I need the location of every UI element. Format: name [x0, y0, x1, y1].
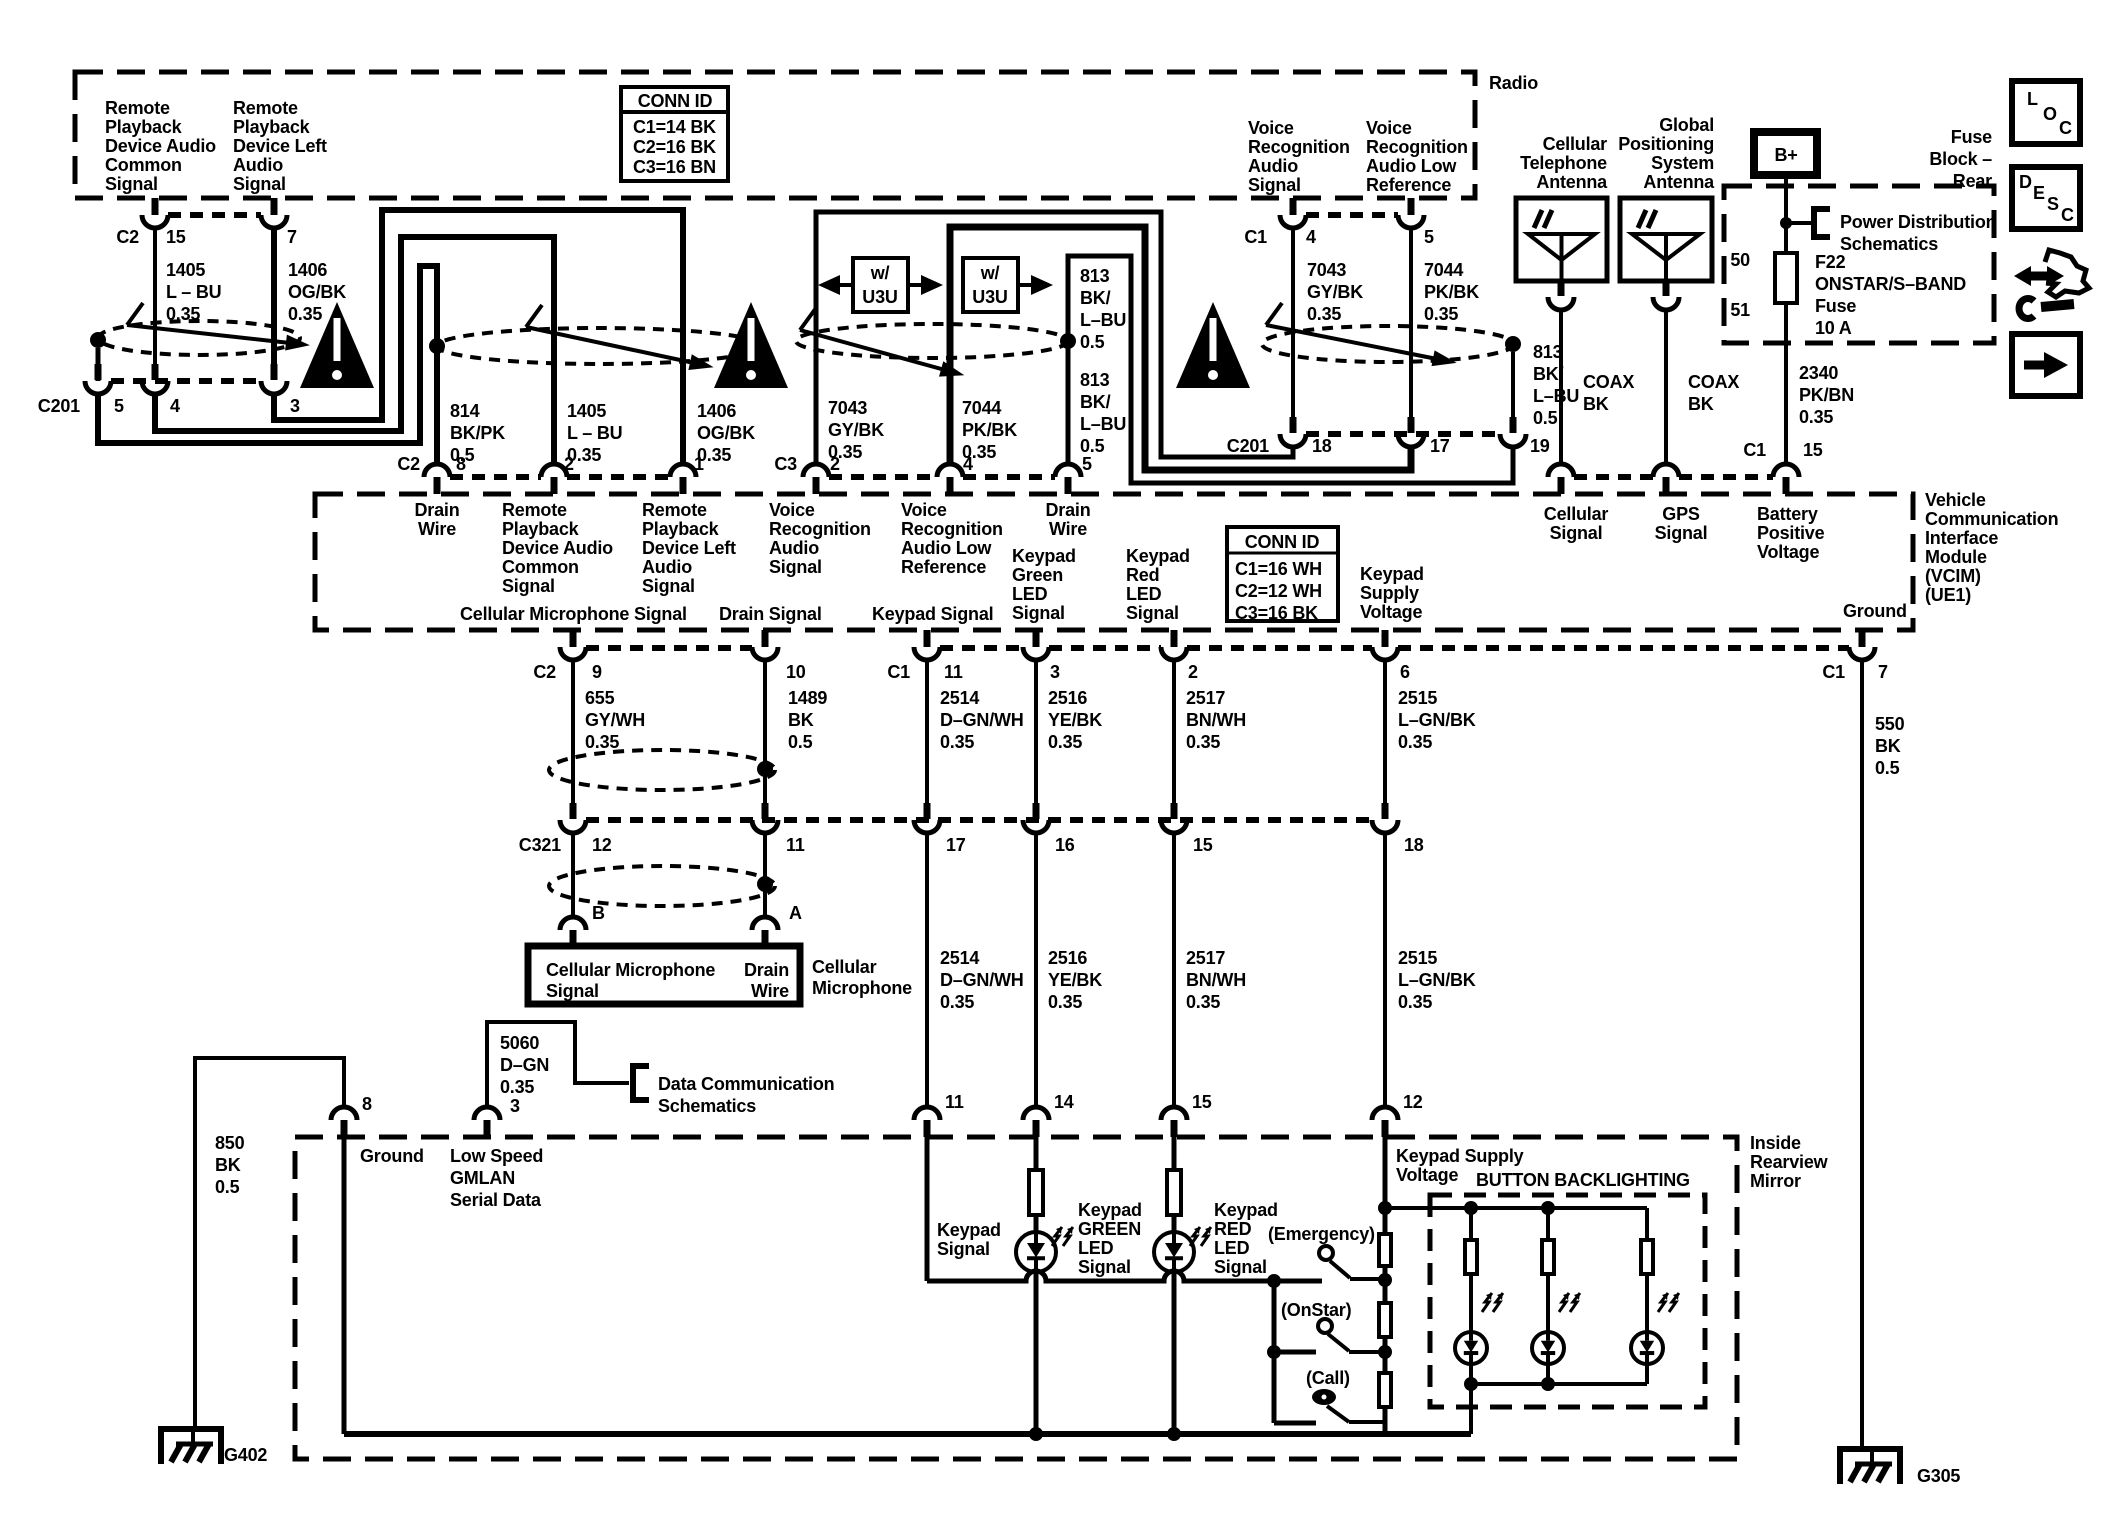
mirror pin 11: [914, 1107, 940, 1120]
svg-text:813: 813: [1080, 370, 1110, 390]
svg-text:Device Audio: Device Audio: [502, 538, 613, 558]
svg-text:7: 7: [287, 227, 297, 247]
svg-text:OG/BK: OG/BK: [288, 282, 346, 302]
radio pin 5: [1408, 198, 1415, 215]
wire 655 GY/WH: [571, 660, 575, 803]
GPS antenna inline connector: [1663, 282, 1670, 296]
svg-text:Drain Signal: Drain Signal: [719, 604, 822, 624]
svg-text:Global: Global: [1659, 115, 1714, 135]
shield arrow B: [526, 327, 694, 363]
svg-text:LED: LED: [1126, 584, 1162, 604]
svg-text:11: 11: [944, 662, 963, 682]
LOC legend box: [2012, 81, 2080, 144]
wire 7044 PK/BK (radio 5 to C201 17): [1409, 228, 1413, 417]
svg-text:7: 7: [1878, 662, 1888, 682]
svg-text:G305: G305: [1917, 1466, 1960, 1486]
svg-text:17: 17: [946, 835, 966, 855]
svg-text:S: S: [2047, 194, 2059, 214]
svg-text:C: C: [2061, 205, 2074, 225]
svg-text:Keypad: Keypad: [1214, 1200, 1278, 1220]
svg-text:Audio: Audio: [642, 557, 692, 577]
svg-text:Rear: Rear: [1953, 171, 1992, 191]
svg-text:Remote: Remote: [642, 500, 707, 520]
svg-text:C2: C2: [116, 227, 139, 247]
svg-text:D–GN/WH: D–GN/WH: [940, 710, 1024, 730]
svg-text:Remote: Remote: [502, 500, 567, 520]
C201 row2 dashed body: [1306, 431, 1500, 437]
radio connector C2 dashed body: [168, 212, 261, 218]
svg-text:Antenna: Antenna: [1536, 172, 1608, 192]
svg-text:Supply: Supply: [1360, 583, 1419, 603]
svg-text:F22: F22: [1815, 252, 1846, 272]
svg-text:Device Audio: Device Audio: [105, 136, 216, 156]
svg-text:9: 9: [592, 662, 602, 682]
svg-text:15: 15: [1193, 835, 1213, 855]
shield arrow C: [800, 330, 945, 370]
svg-text:w/: w/: [980, 263, 1000, 283]
svg-text:C1=16 WH: C1=16 WH: [1235, 559, 1322, 579]
svg-text:Signal: Signal: [1126, 603, 1179, 623]
C201 pin 5: [95, 364, 102, 380]
wire 655 lower: [571, 833, 575, 919]
svg-text:Recognition: Recognition: [901, 519, 1003, 539]
VCIM pin C1-15 battery: [1773, 464, 1799, 477]
C321 pin 16: [1033, 803, 1040, 819]
svg-text:Signal: Signal: [642, 576, 695, 596]
svg-text:0.5: 0.5: [1080, 436, 1105, 456]
svg-text:BUTTON BACKLIGHTING: BUTTON BACKLIGHTING: [1476, 1170, 1690, 1190]
cellular microphone box: [528, 946, 800, 1004]
svg-text:D–GN/WH: D–GN/WH: [940, 970, 1024, 990]
svg-text:Antenna: Antenna: [1643, 172, 1715, 192]
svg-text:15: 15: [1803, 440, 1823, 460]
twisted pair ellipse (lower): [549, 866, 775, 906]
svg-text:L: L: [2027, 89, 2038, 109]
svg-text:C2=12 WH: C2=12 WH: [1235, 581, 1322, 601]
svg-text:Signal: Signal: [1078, 1257, 1131, 1277]
svg-text:0.35: 0.35: [500, 1077, 534, 1097]
resistor divider 3: [1379, 1373, 1391, 1407]
svg-text:15: 15: [166, 227, 186, 247]
svg-text:GPS: GPS: [1662, 504, 1700, 524]
svg-text:2515: 2515: [1398, 688, 1437, 708]
svg-text:Signal: Signal: [769, 557, 822, 577]
wire 2340 PK/BN: [1784, 303, 1788, 464]
wire 813 upper segment (dot to C201 19): [1511, 352, 1515, 417]
svg-text:0.35: 0.35: [1186, 732, 1220, 752]
svg-text:0.5: 0.5: [215, 1177, 240, 1197]
svg-text:5: 5: [1424, 227, 1434, 247]
svg-text:E: E: [2033, 183, 2045, 203]
svg-text:GY/BK: GY/BK: [1307, 282, 1363, 302]
svg-text:15: 15: [1192, 1092, 1212, 1112]
svg-text:2517: 2517: [1186, 948, 1225, 968]
svg-text:C3: C3: [774, 454, 797, 474]
svg-text:4: 4: [1306, 227, 1316, 247]
svg-text:Data Communication: Data Communication: [658, 1074, 834, 1094]
radio pin C2-15: [152, 198, 159, 215]
radio pin C1-4: [1290, 198, 1297, 215]
svg-text:Recognition: Recognition: [1248, 137, 1350, 157]
VCIM pin C2-9: [570, 630, 577, 647]
svg-text:10 A: 10 A: [1815, 318, 1852, 338]
svg-text:Wire: Wire: [418, 519, 456, 539]
svg-text:1406: 1406: [697, 401, 736, 421]
svg-text:12: 12: [1403, 1092, 1423, 1112]
VCIM bottom C2 dashed body: [586, 645, 752, 651]
VCIM pin C1 gps: [1653, 464, 1679, 477]
svg-text:Signal: Signal: [937, 1239, 990, 1259]
svg-text:Recognition: Recognition: [769, 519, 871, 539]
svg-text:GY/BK: GY/BK: [828, 420, 884, 440]
svg-text:Drain: Drain: [744, 960, 789, 980]
svg-text:Green: Green: [1012, 565, 1063, 585]
C321 pin 18: [1382, 803, 1389, 819]
svg-text:COAX: COAX: [1583, 372, 1634, 392]
svg-text:Common: Common: [502, 557, 579, 577]
svg-text:1406: 1406: [288, 260, 327, 280]
svg-text:1405: 1405: [567, 401, 606, 421]
svg-text:Device Left: Device Left: [233, 136, 327, 156]
wire 7044 route (VCIM C3-4 to C201 17): [950, 227, 1411, 470]
svg-text:PK/BK: PK/BK: [962, 420, 1017, 440]
svg-text:C201: C201: [38, 396, 80, 416]
svg-text:0.35: 0.35: [1048, 732, 1082, 752]
svg-text:Telephone: Telephone: [1520, 153, 1607, 173]
svg-text:4: 4: [170, 396, 180, 416]
C321 dashed body: [586, 817, 1372, 823]
svg-text:Signal: Signal: [105, 174, 158, 194]
svg-text:18: 18: [1312, 436, 1332, 456]
svg-text:Reference: Reference: [1366, 175, 1451, 195]
svg-text:L–GN/BK: L–GN/BK: [1398, 970, 1476, 990]
svg-text:2516: 2516: [1048, 948, 1087, 968]
svg-text:BK: BK: [1583, 394, 1609, 414]
svg-text:Red: Red: [1126, 565, 1159, 585]
svg-text:2516: 2516: [1048, 688, 1087, 708]
mirror pin 8 (ground): [331, 1107, 357, 1120]
shield ellipse D: [1262, 326, 1514, 362]
svg-text:w/: w/: [870, 263, 890, 283]
VCIM pin C2-8: [424, 464, 450, 477]
svg-text:Rearview: Rearview: [1750, 1152, 1829, 1172]
svg-text:B: B: [592, 903, 605, 923]
svg-text:L–BU: L–BU: [1533, 386, 1579, 406]
svg-text:L–BU: L–BU: [1080, 414, 1126, 434]
svg-text:ONSTAR/S–BAND: ONSTAR/S–BAND: [1815, 274, 1966, 294]
svg-text:Voice: Voice: [1366, 118, 1412, 138]
resistor divider 1: [1379, 1234, 1391, 1266]
svg-text:LED: LED: [1078, 1238, 1114, 1258]
switch branch vertical: [1272, 1281, 1277, 1423]
svg-text:6: 6: [1400, 662, 1410, 682]
wire 7043 route (VCIM C3-2 to C201 18): [816, 212, 1293, 464]
VCIM pin C1-3: [1033, 630, 1040, 647]
svg-text:C: C: [2059, 118, 2072, 138]
svg-text:G402: G402: [224, 1445, 267, 1465]
wire 2515 L-GN/BK: [1383, 660, 1387, 803]
svg-text:850: 850: [215, 1133, 245, 1153]
wire 7043 GY/BK (radio C1-4 to C201 18): [1291, 228, 1295, 417]
DESC legend box: [2012, 167, 2080, 229]
Fuse Block - Rear box: [1724, 186, 1994, 343]
C321 pin 15: [1171, 803, 1178, 819]
wire B+ to fuse: [1784, 175, 1788, 253]
wire 1406 route (C201 3 to VCIM C2-1): [274, 210, 683, 464]
svg-text:Power Distribution: Power Distribution: [1840, 212, 1996, 232]
svg-text:C1: C1: [1244, 227, 1267, 247]
svg-text:GMLAN: GMLAN: [450, 1168, 515, 1188]
svg-text:4: 4: [963, 454, 973, 474]
C321 pin 11: [762, 803, 769, 819]
svg-text:Device Left: Device Left: [642, 538, 736, 558]
svg-text:Mirror: Mirror: [1750, 1171, 1801, 1191]
C201 pin 4: [152, 364, 159, 380]
svg-text:0.35: 0.35: [1424, 304, 1458, 324]
C321 pin 12: [570, 803, 577, 819]
wire 813 drain route (VCIM C3-5 to C201 19): [1068, 256, 1513, 483]
wire 814 BK/PK drain route (C201 5 to VCIM C2-8): [96, 348, 101, 381]
power distribution off-page tap: [1786, 221, 1812, 225]
svg-text:BK: BK: [215, 1155, 241, 1175]
svg-text:C2=16 BK: C2=16 BK: [633, 137, 716, 157]
svg-text:Module: Module: [1925, 547, 1987, 567]
svg-text:Audio: Audio: [769, 538, 819, 558]
svg-text:C201: C201: [1227, 436, 1269, 456]
VCIM pin C3-5: [1055, 464, 1081, 477]
VCIM C2 top dashed body: [450, 474, 541, 480]
ground G305: [1840, 1449, 1900, 1484]
svg-text:PK/BN: PK/BN: [1799, 385, 1854, 405]
C321 pin 17: [924, 803, 931, 819]
svg-text:0.35: 0.35: [1398, 992, 1432, 1012]
svg-text:C3=16 BN: C3=16 BN: [633, 157, 716, 177]
junction dot on 814: [429, 338, 445, 354]
keypad red LED branch: [1172, 1137, 1177, 1170]
svg-text:B+: B+: [1774, 145, 1797, 165]
shield ellipse C: [796, 324, 1068, 358]
VCIM pin C1-11: [924, 630, 931, 647]
warning triangle 1: [300, 302, 374, 388]
svg-text:Positive: Positive: [1757, 523, 1825, 543]
svg-text:Keypad: Keypad: [1012, 546, 1076, 566]
svg-text:0.35: 0.35: [1186, 992, 1220, 1012]
svg-text:5060: 5060: [500, 1033, 539, 1053]
backlighting feed: [1378, 1201, 1392, 1215]
svg-text:1489: 1489: [788, 688, 827, 708]
svg-text:Remote: Remote: [233, 98, 298, 118]
svg-text:Serial Data: Serial Data: [450, 1190, 542, 1210]
swap/wrench icon: [2026, 272, 2052, 281]
svg-text:A: A: [789, 903, 802, 923]
BUTTON BACKLIGHTING box: [1430, 1195, 1705, 1407]
svg-text:3: 3: [1050, 662, 1060, 682]
svg-text:PK/BK: PK/BK: [1424, 282, 1479, 302]
svg-text:GY/WH: GY/WH: [585, 710, 645, 730]
svg-text:Ground: Ground: [1843, 601, 1907, 621]
svg-text:Positioning: Positioning: [1618, 134, 1714, 154]
svg-text:12: 12: [592, 835, 612, 855]
svg-text:5: 5: [1082, 454, 1092, 474]
VCIM pin C3-2: [803, 464, 829, 477]
VCIM bottom C1 dashed body: [940, 645, 1023, 651]
svg-text:Schematics: Schematics: [1840, 234, 1938, 254]
svg-text:17: 17: [1430, 436, 1450, 456]
mirror pin 3 (GMLAN): [474, 1107, 500, 1120]
ground G402: [161, 1429, 221, 1464]
svg-text:Signal: Signal: [546, 981, 599, 1001]
wire 5060 D-GN (GMLAN): [487, 1022, 629, 1108]
CONN ID table (radio): [621, 87, 728, 181]
svg-text:Fuse: Fuse: [1951, 127, 1992, 147]
svg-text:2514: 2514: [940, 948, 979, 968]
svg-text:D–GN: D–GN: [500, 1055, 549, 1075]
svg-text:OG/BK: OG/BK: [697, 423, 755, 443]
wire 550 BK (VCIM ground to G305): [1860, 660, 1864, 1449]
svg-text:Voltage: Voltage: [1396, 1165, 1458, 1185]
svg-text:Audio: Audio: [233, 155, 283, 175]
svg-text:813: 813: [1080, 266, 1110, 286]
svg-text:11: 11: [945, 1092, 964, 1112]
svg-text:1405: 1405: [166, 260, 205, 280]
forward arrow legend box: [2012, 334, 2080, 396]
svg-text:COAX: COAX: [1688, 372, 1739, 392]
svg-text:BK: BK: [788, 710, 814, 730]
svg-text:C1: C1: [1822, 662, 1845, 682]
svg-text:BK: BK: [1875, 736, 1901, 756]
VCIM C1 top dashed body: [1574, 474, 1653, 480]
svg-text:Voltage: Voltage: [1360, 602, 1422, 622]
keypad supply trace: [1383, 1137, 1388, 1234]
svg-text:C321: C321: [519, 835, 561, 855]
svg-text:Keypad: Keypad: [1360, 564, 1424, 584]
svg-text:3: 3: [510, 1096, 520, 1116]
svg-text:0.35: 0.35: [288, 304, 322, 324]
svg-text:Audio Low: Audio Low: [901, 538, 992, 558]
wire 2516 YE/BK: [1034, 660, 1038, 803]
svg-text:2340: 2340: [1799, 363, 1838, 383]
wire 2514 lower: [925, 833, 929, 1108]
svg-text:Remote: Remote: [105, 98, 170, 118]
svg-text:Communication: Communication: [1925, 509, 2058, 529]
svg-text:14: 14: [1054, 1092, 1074, 1112]
VCIM pin C1 cellular: [1548, 464, 1574, 477]
svg-text:0.35: 0.35: [1398, 732, 1432, 752]
svg-text:Radio: Radio: [1489, 73, 1538, 93]
svg-text:0.5: 0.5: [1080, 332, 1105, 352]
svg-text:Signal: Signal: [1655, 523, 1708, 543]
svg-text:Voice: Voice: [769, 500, 815, 520]
svg-text:Audio: Audio: [1248, 156, 1298, 176]
backlight return: [1471, 1382, 1647, 1386]
svg-text:Wire: Wire: [751, 981, 789, 1001]
svg-text:Keypad: Keypad: [937, 1220, 1001, 1240]
svg-text:C1: C1: [887, 662, 910, 682]
svg-text:Keypad Signal: Keypad Signal: [872, 604, 993, 624]
cellular antenna inline connector: [1559, 281, 1563, 285]
svg-text:5: 5: [114, 396, 124, 416]
svg-text:Playback: Playback: [105, 117, 183, 137]
svg-text:Keypad: Keypad: [1126, 546, 1190, 566]
svg-text:Cellular: Cellular: [1543, 134, 1608, 154]
mic pin A: [752, 917, 778, 930]
keypad green LED branch: [1034, 1137, 1039, 1170]
svg-text:16: 16: [1055, 835, 1075, 855]
svg-text:Common: Common: [105, 155, 182, 175]
shield ellipse B: [437, 328, 763, 364]
svg-text:Recognition: Recognition: [1366, 137, 1468, 157]
VCIM pin C2-10: [762, 630, 769, 647]
junction dot on 813 right: [1505, 336, 1521, 352]
radio connector C1 dashed body: [1306, 212, 1398, 218]
C201 pin 3: [271, 364, 278, 380]
option box w/U3U 2: [963, 258, 1018, 312]
svg-text:Keypad Supply: Keypad Supply: [1396, 1146, 1524, 1166]
drain junction dot upper: [757, 761, 773, 777]
svg-text:550: 550: [1875, 714, 1905, 734]
warning triangle 3: [1176, 302, 1250, 388]
svg-text:3: 3: [290, 396, 300, 416]
C201 pin 18: [1290, 417, 1297, 433]
mirror ground trace: [342, 1137, 347, 1434]
svg-text:Keypad: Keypad: [1078, 1200, 1142, 1220]
warning triangle 2: [714, 302, 788, 388]
svg-text:(Emergency): (Emergency): [1268, 1224, 1375, 1244]
svg-text:C1=14 BK: C1=14 BK: [633, 117, 716, 137]
svg-text:(VCIM): (VCIM): [1925, 566, 1981, 586]
svg-text:Drain: Drain: [414, 500, 459, 520]
svg-text:(Call): (Call): [1306, 1368, 1350, 1388]
VCIM pin C1-6: [1382, 630, 1389, 647]
svg-text:2: 2: [830, 454, 840, 474]
C201 pin 17: [1408, 417, 1415, 433]
svg-text:O: O: [2043, 104, 2057, 124]
svg-text:0.5: 0.5: [1533, 408, 1558, 428]
svg-text:Inside: Inside: [1750, 1133, 1801, 1153]
svg-text:Signal: Signal: [1214, 1257, 1267, 1277]
mirror pin 14: [1023, 1107, 1049, 1120]
svg-text:Cellular: Cellular: [1544, 504, 1609, 524]
svg-text:0.35: 0.35: [585, 732, 619, 752]
svg-text:C2: C2: [397, 454, 420, 474]
resistor divider 2: [1379, 1303, 1391, 1337]
svg-text:7044: 7044: [1424, 260, 1463, 280]
wire 1405 route (C201 4 to VCIM C2-2): [155, 237, 554, 464]
svg-text:System: System: [1651, 153, 1714, 173]
svg-text:Ground: Ground: [360, 1146, 424, 1166]
wire 2517 lower: [1172, 833, 1176, 1108]
svg-text:1: 1: [694, 454, 704, 474]
svg-text:Block –: Block –: [1929, 149, 1992, 169]
svg-text:Audio Low: Audio Low: [1366, 156, 1457, 176]
svg-text:BK/: BK/: [1080, 392, 1111, 412]
svg-text:BK: BK: [1688, 394, 1714, 414]
svg-text:L – BU: L – BU: [166, 282, 221, 302]
svg-text:L–GN/BK: L–GN/BK: [1398, 710, 1476, 730]
coax cellular wire: [1559, 310, 1563, 464]
coax GPS wire: [1664, 310, 1668, 464]
svg-text:7043: 7043: [1307, 260, 1346, 280]
Radio module box: [75, 72, 1475, 198]
svg-text:Playback: Playback: [642, 519, 720, 539]
radio pin 7: [271, 198, 278, 215]
shield ellipse A: [98, 321, 300, 355]
svg-text:Low Speed: Low Speed: [450, 1146, 543, 1166]
svg-text:Drain: Drain: [1045, 500, 1090, 520]
svg-text:D: D: [2019, 172, 2032, 192]
C201 dashed body: [111, 378, 261, 384]
svg-text:U3U: U3U: [862, 287, 897, 307]
